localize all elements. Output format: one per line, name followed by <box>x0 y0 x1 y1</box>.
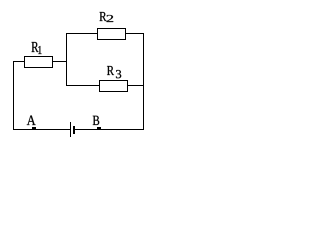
node label B <box>93 116 99 125</box>
battery cell: short thick negative plate <box>73 126 75 134</box>
wire: left vertical branch <box>13 61 14 130</box>
label R1 letter R <box>32 42 39 52</box>
node A terminal dot <box>32 127 36 129</box>
battery cell: long positive plate <box>70 122 71 137</box>
resistor R2 <box>98 29 126 40</box>
wire: R3 left lead <box>66 85 100 86</box>
wire: bottom left lead to battery <box>13 129 71 130</box>
node B terminal dot <box>97 127 101 129</box>
label R2 subscript 2 <box>107 15 114 22</box>
wire: R1 left lead <box>13 61 25 62</box>
label R3 letter R <box>107 66 114 75</box>
resistor R3 <box>100 81 128 92</box>
wire: middle vertical joining parallel branches <box>66 33 67 86</box>
wire: R2 left lead <box>66 33 98 34</box>
wire: right vertical branch <box>143 33 144 130</box>
node label A <box>27 116 36 126</box>
label R3 subscript 3 <box>116 70 121 78</box>
label R2 letter R <box>100 12 107 21</box>
wire: bottom right lead from battery <box>75 129 144 130</box>
wire: R2 right lead <box>125 33 144 34</box>
label R1 subscript 1 <box>38 46 41 54</box>
wire: R1 right lead <box>52 61 67 62</box>
resistor R1 <box>25 57 53 68</box>
wire: R3 right lead <box>127 85 144 86</box>
